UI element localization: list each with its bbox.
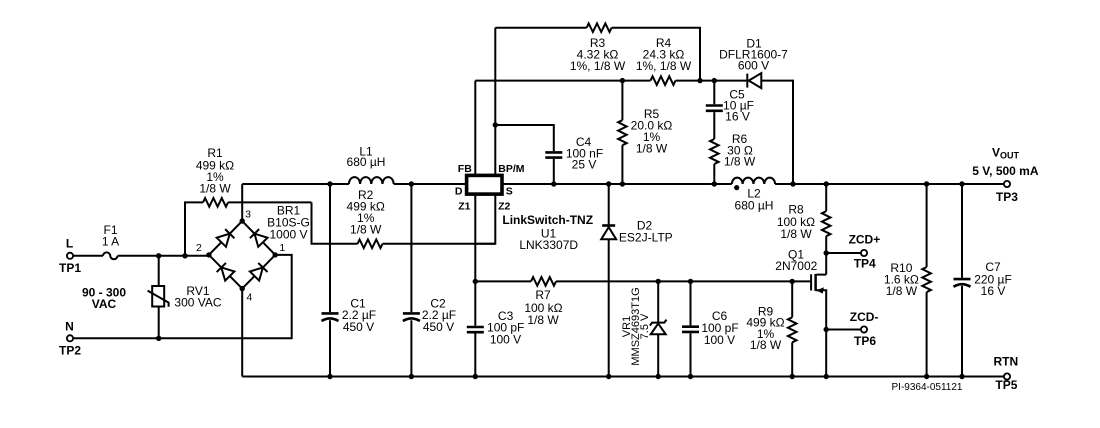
BR1 diode top-right: [255, 234, 268, 247]
svg-text:LNK3307D: LNK3307D: [519, 238, 578, 252]
pin BP/M riser to top wire: [494, 28, 496, 176]
svg-text:450 V: 450 V: [423, 320, 454, 334]
svg-text:16 V: 16 V: [725, 110, 750, 124]
pin FB riser: [474, 81, 476, 176]
pin Z2 column: [475, 194, 495, 244]
svg-text:1%, 1/8 W: 1%, 1/8 W: [636, 59, 692, 73]
svg-text:Z1: Z1: [458, 201, 470, 213]
svg-text:1000 V: 1000 V: [269, 228, 307, 242]
node ZCD+: [824, 250, 829, 255]
svg-text:100 V: 100 V: [704, 333, 735, 347]
fuse F1: [103, 252, 118, 259]
varistor RV1: [158, 256, 160, 338]
svg-text:25 V: 25 V: [572, 158, 597, 172]
svg-text:3: 3: [245, 208, 251, 220]
gate rail with resistor R7: [475, 280, 531, 282]
wire bridge pin3 riser to rail: [241, 184, 243, 221]
resistor R2: [312, 202, 358, 243]
terminal TP1 (L): [67, 253, 73, 259]
node Z1/R7: [473, 279, 478, 284]
wire ZCD-: [826, 329, 861, 331]
BR1 diode top-left: [217, 234, 230, 247]
svg-text:1/8 W: 1/8 W: [199, 181, 231, 195]
resistor R4: [651, 76, 676, 85]
svg-text:D: D: [455, 186, 463, 198]
transistor Q1 2N7002: [817, 274, 827, 276]
wire L line left of fuse: [73, 255, 103, 257]
svg-text:TP4: TP4: [854, 256, 876, 270]
bridge rectifier BR1 diamond: [209, 221, 275, 289]
inductor L1: [349, 177, 394, 184]
svg-text:100 V: 100 V: [490, 333, 521, 347]
svg-text:1/8 W: 1/8 W: [527, 313, 559, 327]
diode D2: [608, 184, 610, 226]
svg-text:1/8 W: 1/8 W: [886, 284, 918, 298]
capacitor C4: [495, 125, 554, 184]
capacitor C2: [410, 184, 412, 377]
svg-text:1/8 W: 1/8 W: [724, 155, 756, 169]
svg-text:680 µH: 680 µH: [347, 155, 386, 169]
svg-text:FB: FB: [458, 163, 472, 175]
resistor R8: [825, 184, 827, 211]
svg-text:VAC: VAC: [92, 297, 117, 311]
svg-text:TP3: TP3: [996, 190, 1018, 204]
zener VR1: [657, 281, 659, 322]
svg-text:1/8 W: 1/8 W: [636, 141, 668, 155]
svg-text:680 µH: 680 µH: [735, 198, 774, 212]
resistor R5: [621, 81, 623, 121]
svg-text:1/8 W: 1/8 W: [780, 227, 812, 241]
node BP/M - C4 branch: [493, 122, 498, 127]
svg-text:ES2J-LTP: ES2J-LTP: [619, 231, 673, 245]
svg-text:2N7002: 2N7002: [775, 259, 817, 273]
capacitor C3: [474, 281, 476, 376]
BR1 pin nodes: [240, 218, 245, 223]
svg-text:L: L: [66, 237, 73, 251]
BR1 diode bottom-right: [250, 267, 263, 280]
pin Z1 column: [474, 194, 476, 281]
svg-text:TP2: TP2: [59, 344, 81, 358]
bottom rail (RTN): [242, 376, 1004, 378]
row2 wire FB to R4: [475, 80, 650, 82]
svg-text:600 V: 600 V: [738, 59, 769, 73]
svg-text:1/8 W: 1/8 W: [750, 338, 782, 352]
node L-RV1: [156, 253, 161, 258]
capacitor C5: [713, 81, 715, 139]
svg-text:N: N: [65, 319, 74, 333]
capacitor C1: [329, 184, 331, 377]
svg-text:PI-9364-051121: PI-9364-051121: [892, 382, 963, 393]
svg-text:LinkSwitch-TNZ: LinkSwitch-TNZ: [502, 213, 593, 227]
node N-RV1: [156, 336, 161, 341]
svg-text:ZCD-: ZCD-: [850, 310, 879, 324]
main rail (D pin rail): [242, 183, 1004, 185]
svg-text:1: 1: [279, 242, 285, 254]
inductor L2: [732, 178, 775, 184]
svg-text:7.5 V: 7.5 V: [639, 313, 651, 339]
wire row2 R4 to D1: [676, 80, 749, 82]
wire bridge pin4 to bottom rail: [241, 289, 243, 377]
top wire and resistor R3: [495, 27, 586, 29]
svg-text:Z2: Z2: [498, 201, 510, 213]
node ZCD-: [824, 327, 829, 332]
svg-text:1 A: 1 A: [102, 235, 119, 249]
node L-R1: [182, 253, 187, 258]
svg-text:BP/M: BP/M: [498, 163, 525, 175]
wire N line to bridge pin 1: [73, 255, 292, 338]
svg-text:4: 4: [246, 291, 252, 303]
wire L line to bridge pin 2: [118, 255, 209, 257]
svg-text:ZCD+: ZCD+: [849, 233, 881, 247]
capacitor C7: [961, 184, 963, 377]
wire ZCD+: [826, 252, 861, 254]
svg-text:450 V: 450 V: [343, 320, 374, 334]
svg-text:2: 2: [196, 242, 202, 254]
svg-text:1%, 1/8 W: 1%, 1/8 W: [570, 59, 626, 73]
terminal TP2 (N): [67, 335, 73, 341]
resistor R6: [710, 139, 719, 164]
capacitor C6: [690, 281, 692, 376]
resistor R9: [791, 281, 793, 317]
svg-text:300 VAC: 300 VAC: [174, 296, 221, 310]
resistor R10: [926, 184, 928, 267]
terminal TP5 (RTN): [1004, 373, 1010, 379]
svg-text:5 V, 500 mA: 5 V, 500 mA: [972, 164, 1039, 178]
svg-text:RTN: RTN: [993, 355, 1018, 369]
svg-text:TP1: TP1: [59, 261, 81, 275]
L2 phasing dot: [734, 185, 739, 190]
terminal TP3 (VOUT): [1004, 181, 1010, 187]
svg-text:TP6: TP6: [854, 334, 876, 348]
svg-text:TP5: TP5: [995, 378, 1017, 392]
BR1 diode bottom-left: [221, 267, 234, 280]
svg-text:1/8 W: 1/8 W: [350, 223, 382, 237]
terminal TP6 (ZCD-): [861, 326, 867, 332]
terminal TP4 (ZCD+): [861, 250, 867, 256]
svg-text:16 V: 16 V: [981, 284, 1006, 298]
svg-text:S: S: [506, 186, 513, 198]
IC U1 LinkSwitch-TNZ: [467, 175, 502, 194]
diode D1: [746, 74, 748, 88]
resistor R1: [185, 202, 203, 255]
